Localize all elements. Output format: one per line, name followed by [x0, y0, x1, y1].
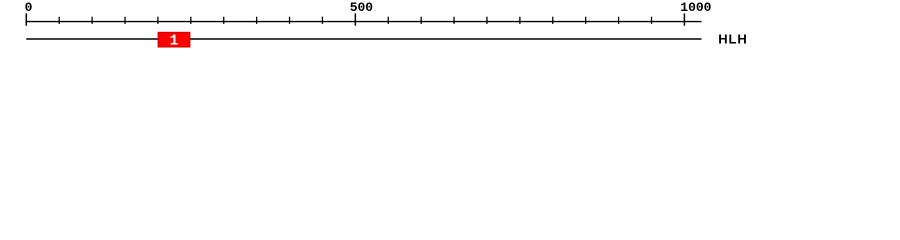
domain box fill: [159, 33, 190, 47]
ruler axis line: [26, 21, 701, 23]
protein backbone line: [26, 38, 701, 40]
major tick 1000: [683, 13, 685, 25]
domain box (HLH): [158, 32, 191, 48]
svg-text:HLH: HLH: [718, 31, 748, 46]
svg-text:500: 500: [350, 0, 374, 15]
svg-text:1000: 1000: [680, 0, 711, 15]
major tick 500: [354, 13, 356, 25]
svg-text:0: 0: [25, 0, 33, 15]
major tick 0: [25, 13, 27, 25]
minor ticks every 50 aa: [59, 17, 651, 24]
svg-text:1: 1: [170, 34, 179, 50]
